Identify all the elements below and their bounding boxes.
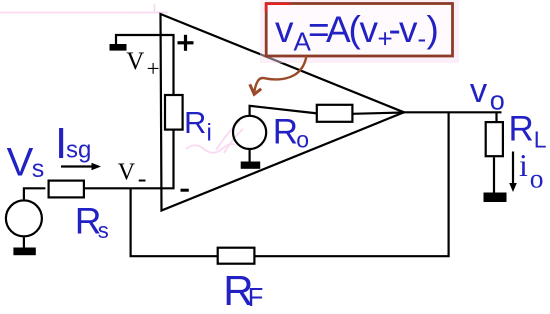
- plus input marker: [178, 35, 194, 51]
- svg-text:F: F: [248, 284, 264, 312]
- label Ro: [273, 113, 309, 153]
- label RF: [223, 267, 263, 314]
- svg-text:A: A: [326, 9, 351, 50]
- minus input marker: [181, 189, 189, 192]
- svg-text:o: o: [530, 163, 544, 194]
- svg-text:o: o: [490, 86, 505, 116]
- resistor Rs: [49, 181, 84, 198]
- voltage source Vs: [6, 200, 42, 236]
- label vo: [470, 72, 505, 116]
- current arrow io: [509, 152, 517, 193]
- svg-text:R: R: [184, 105, 206, 140]
- wire Ro to apex: [352, 113, 404, 114]
- svg-text:-: -: [418, 23, 427, 53]
- wire RL bottom lead: [493, 157, 495, 193]
- resistor Ri: [165, 95, 183, 130]
- resistor RL: [486, 122, 503, 156]
- op-amp triangle: [161, 14, 405, 211]
- annotation arrow (box to source): [250, 56, 307, 94]
- svg-text:s: s: [98, 218, 109, 243]
- wire RL top lead: [495, 112, 497, 123]
- wire source top to Ro: [250, 106, 317, 117]
- svg-text:R: R: [509, 110, 534, 149]
- wire Rs to v- node: [84, 187, 175, 189]
- wire RF to output node (feedback): [255, 112, 449, 256]
- svg-text:v: v: [399, 9, 418, 50]
- wire Vs bottom lead: [23, 237, 25, 248]
- wire v+ net: [116, 35, 174, 95]
- svg-text:v: v: [360, 9, 379, 50]
- svg-text:R: R: [273, 113, 298, 152]
- label Isg: [55, 119, 91, 168]
- current arrow Isg: [61, 163, 101, 170]
- wire Vs top lead to Rs: [24, 188, 46, 199]
- svg-text:L: L: [534, 126, 547, 152]
- svg-text:-: -: [138, 164, 147, 193]
- label RL: [509, 110, 547, 153]
- wire Ri bottom lead: [172, 130, 174, 189]
- svg-text:V: V: [7, 140, 34, 184]
- ground (dependent source): [241, 162, 261, 169]
- svg-text:i: i: [519, 147, 528, 183]
- label Rs: [75, 201, 109, 244]
- svg-text:v: v: [470, 72, 488, 110]
- ground (RL): [484, 193, 507, 203]
- svg-text:V: V: [126, 48, 144, 75]
- wire source bottom lead: [249, 150, 251, 162]
- label Ri: [184, 105, 212, 147]
- svg-text:v: v: [275, 9, 294, 50]
- svg-text:sg: sg: [66, 137, 91, 164]
- resistor Ro: [317, 105, 353, 122]
- value box vA=A(v+-v-): [263, 0, 456, 60]
- label io: [519, 147, 544, 194]
- svg-text:i: i: [207, 120, 212, 147]
- svg-text:o: o: [296, 126, 309, 152]
- svg-text:V: V: [118, 159, 136, 185]
- dependent source vA circle: [233, 116, 266, 149]
- label Vs: [7, 140, 45, 184]
- svg-text:+: +: [147, 56, 160, 81]
- label v-: [118, 159, 147, 193]
- wire output to RL: [404, 111, 502, 113]
- ground (v+ input): [110, 44, 127, 51]
- svg-text:): ): [427, 9, 439, 50]
- label v+: [126, 48, 159, 81]
- svg-text:s: s: [32, 155, 45, 183]
- resistor RF: [218, 248, 255, 264]
- wire v- node down to RF: [131, 188, 218, 256]
- ground (Vs): [13, 248, 35, 256]
